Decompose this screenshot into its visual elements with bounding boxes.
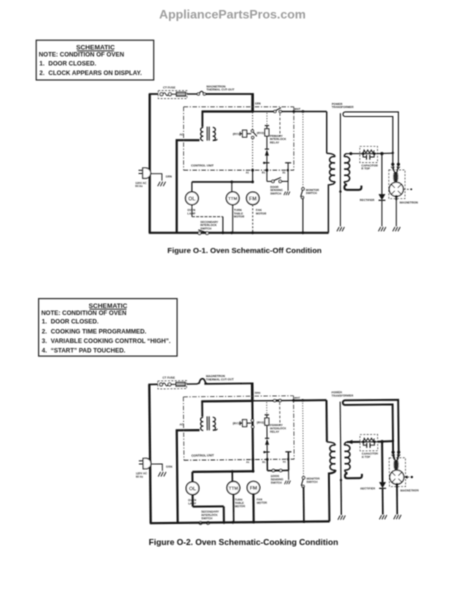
wire: feed drop to LV transformer primary (201, 401, 203, 417)
magnetron thermal cut-out TC1 (198, 379, 208, 384)
power transformer T1 core (339, 402, 342, 480)
svg-text:RELAY: RELAY (270, 141, 279, 145)
svg-text:DOOR CLOSED.: DOOR CLOSED. (48, 60, 96, 67)
node: bottom wire junction dots (222, 231, 225, 234)
wire: top line fuse to thermal cutout (187, 93, 198, 95)
wire: feed line to power transformer (294, 399, 327, 401)
svg-text:S1: S1 (282, 172, 286, 175)
low voltage transformer T2 in control unit (201, 417, 204, 421)
wire: left supply vertical (schematic 1) (149, 94, 151, 233)
node B1 junction (266, 169, 269, 172)
svg-text:SWITCH: SWITCH (270, 192, 281, 196)
note box border (36, 40, 154, 80)
svg-text:SWITCH: SWITCH (200, 226, 211, 230)
current arrow on HV node line (348, 440, 353, 444)
svg-text:GRN: GRN (255, 101, 261, 105)
svg-text:A1: A1 (246, 172, 250, 175)
svg-text:AppliancePartsPros.com: AppliancePartsPros.com (159, 8, 306, 22)
svg-text:Figure O-1. Oven Schematic-Off: Figure O-1. Oven Schematic-Off Condition (167, 246, 321, 255)
svg-text:FM: FM (250, 486, 258, 492)
magnetron antenna lead (404, 476, 411, 478)
wire: LV transformer left lead to left vertical (177, 140, 200, 233)
svg-text:MOTOR: MOTOR (256, 211, 266, 215)
node: TTM junction on loads line (231, 470, 234, 473)
svg-text:4.: 4. (42, 348, 47, 355)
node: FM junction on loads line (252, 470, 255, 473)
wire: column terminal to load line (252, 170, 254, 182)
svg-text:SCHEMATIC: SCHEMATIC (89, 303, 128, 310)
magnetron tube (389, 182, 403, 196)
svg-text:FM: FM (249, 196, 257, 202)
svg-text:CONTROL UNIT: CONTROL UNIT (191, 164, 214, 168)
relay RY2 dotted riser from feed line (266, 402, 268, 415)
relay RY2 top terminal bar (265, 414, 269, 416)
svg-text:B1: B1 (262, 172, 266, 175)
wire: door switch ground stub (287, 181, 289, 191)
wire: HV node line from secondary (347, 441, 360, 443)
node: rectifier junction (380, 152, 383, 155)
wire: GRN ground wire from plug (151, 464, 162, 471)
svg-text:RECTIFIER: RECTIFIER (360, 198, 375, 202)
svg-text:GRN: GRN (166, 465, 172, 469)
wire: FM lower lead (252, 494, 254, 522)
wire: HV node line from secondary (347, 153, 360, 155)
svg-text:B1: B1 (262, 461, 266, 464)
primary interlock switch contacts on feed line (253, 400, 273, 402)
svg-text:TRANSFORMER: TRANSFORMER (332, 105, 354, 109)
node A1 junction on terminal line (251, 169, 254, 172)
magnetron heater filament (394, 172, 397, 182)
node WHT at control unit boundary (292, 110, 295, 113)
svg-text:(RY1): (RY1) (233, 132, 240, 136)
wire: door switch right lead riser (282, 180, 289, 182)
wire: loads supply line (192, 470, 254, 473)
power transformer T1 primary winding (327, 442, 335, 445)
wire: power transformer primary riser (325, 400, 327, 442)
wire: feed column from junction to RY1 contact (251, 402, 253, 420)
svg-text:GRN: GRN (255, 391, 261, 395)
svg-text:(RY2): (RY2) (257, 131, 264, 135)
magnetron V1 dashed outline (389, 458, 405, 487)
ground: door switch ground (284, 192, 286, 196)
wire: feed drop to LV transformer primary (201, 111, 203, 127)
wire: rectifier branch (381, 442, 383, 483)
power transformer T1 HV secondary winding (344, 442, 347, 445)
svg-text:SWITCH: SWITCH (306, 480, 317, 484)
svg-text:MOTOR: MOTOR (257, 501, 267, 505)
power transformer T1 filament winding (345, 473, 362, 478)
turntable motor TTM (231, 471, 233, 481)
wire: column below RY1 to control-unit terminal (252, 139, 254, 171)
svg-text:VARIABLE COOKING CONTROL “HIGH: VARIABLE COOKING CONTROL “HIGH”. (51, 338, 171, 345)
wire: top line from corner to CT fuse (149, 93, 158, 95)
wire: secondary interlock bypass (193, 505, 224, 507)
door sensing switch open blade (274, 177, 281, 180)
rectifier diode D2 (379, 482, 386, 488)
node WHT at control unit boundary (292, 399, 295, 402)
control unit bottom dash-dot terminal line (184, 459, 294, 460)
ground: chassis ground at plug (158, 182, 160, 187)
HV capacitor C1 dashed outline (360, 434, 378, 450)
relay RY2 top terminal bar (265, 125, 269, 127)
wire: capacitor to rectifier node (378, 440, 393, 443)
svg-text:AC: AC (179, 422, 183, 426)
power transformer T1 filament winding (344, 185, 361, 190)
capacitor plates (363, 442, 366, 445)
door sensing switch closed (cooking) (272, 469, 282, 471)
monitor switch SW3 (302, 188, 305, 191)
wire: door switch ground stub (288, 470, 290, 479)
primary interlock switch closed (cooking) (273, 399, 281, 401)
wire: rectifier branch (381, 154, 383, 195)
node: HV winding junction (349, 152, 352, 155)
fuse F1 CT FUSE dashed outline (158, 381, 187, 389)
svg-text:SCHEMATIC: SCHEMATIC (76, 44, 115, 51)
wire: thick feed line inside control unit (202, 110, 254, 112)
wire: top line from corner to CT fuse (148, 383, 157, 385)
node: HV winding ground junction (339, 190, 341, 192)
control unit bottom dash-dot terminal line (184, 169, 294, 171)
oven lamp OL (186, 482, 199, 495)
svg-text:A1: A1 (246, 461, 250, 464)
wire: thick feed line inside control unit (201, 400, 253, 403)
secondary interlock switch SW2 contacts on bottom line (198, 232, 201, 235)
AC plug 120V 60Hz (143, 458, 151, 468)
svg-text:NOTE: CONDITION OF OVEN: NOTE: CONDITION OF OVEN (41, 310, 127, 317)
svg-text:TRANSFORMER: TRANSFORMER (331, 393, 353, 397)
wire: bottom return line (150, 521, 330, 523)
mechanical linkage to RY2 (279, 113, 281, 136)
HV capacitor C1 dashed outline (360, 146, 378, 162)
node: monitor branch junction (301, 399, 304, 402)
wire: feed column from junction to RY1 contact (252, 112, 254, 130)
magnetron heater filament (394, 460, 397, 470)
relay RY1 contact open blade (253, 132, 257, 137)
node: HV winding junction (349, 440, 352, 443)
svg-text:GRN: GRN (166, 174, 172, 178)
HV capacitor C1 node-through line (360, 441, 378, 443)
turntable motor TTM (231, 182, 233, 192)
svg-text:OL: OL (189, 486, 197, 492)
node: magnetron cathode junction (395, 195, 398, 198)
node: filament node junctions (392, 440, 394, 442)
svg-text:R TOP: R TOP (362, 455, 371, 459)
oven lamp OL (186, 192, 199, 205)
primary interlock switch contacts on feed line (254, 111, 274, 113)
power transformer T1 HV secondary winding (344, 154, 347, 157)
node: rectifier junction (380, 440, 383, 443)
wire: oven lamp lower lead (192, 495, 194, 507)
wire: monitor switch to bottom line (303, 487, 305, 522)
mechanical linkage to RY2 (279, 402, 281, 425)
svg-text:NOTE: CONDITION OF OVEN: NOTE: CONDITION OF OVEN (39, 52, 125, 59)
bleeder resistor in capacitor (363, 150, 374, 153)
power transformer T1 primary winding (327, 153, 335, 156)
wire: oven lamp lower lead (191, 205, 193, 217)
svg-text:THERMAL CUT-OUT: THERMAL CUT-OUT (207, 88, 235, 92)
wire: door sensing switch left lead (266, 170, 268, 181)
svg-text:AC: AC (180, 132, 184, 136)
svg-text:SWITCH: SWITCH (271, 481, 282, 485)
magnetron antenna lead (404, 188, 411, 190)
wire: magnetron cathode ground lead (396, 484, 398, 514)
svg-text:CLOCK APPEARS ON DISPLAY.: CLOCK APPEARS ON DISPLAY. (48, 70, 142, 77)
door switch upper terminal bar (285, 162, 291, 164)
diode D1 in RY2 branch (265, 148, 269, 150)
node: magnetron cathode junction (396, 483, 399, 486)
wire: transformer core ground lead (340, 480, 342, 515)
svg-text:R TOP: R TOP (361, 167, 370, 171)
magnetron filament lead connectors (393, 453, 394, 460)
magnetron tube (390, 470, 404, 484)
capacitor plates (363, 154, 366, 157)
svg-text:60 Hz: 60 Hz (135, 184, 143, 188)
wire: secondary interlock bypass (192, 216, 223, 218)
fuse F1 connector and element (160, 93, 163, 96)
svg-text:WHT: WHT (294, 396, 300, 400)
ground: magnetron ground (393, 227, 395, 231)
svg-text:(RY2): (RY2) (257, 420, 265, 424)
wire: GRN ground wire from plug (151, 174, 162, 181)
magnetron thermal cut-out TC1 (197, 93, 199, 95)
svg-text:DOOR CLOSED.: DOOR CLOSED. (51, 319, 99, 326)
svg-text:CT FUSE: CT FUSE (163, 376, 175, 380)
primary interlock switch open blade (276, 108, 281, 111)
svg-text:CONTROL UNIT: CONTROL UNIT (191, 453, 214, 457)
ground: transformer ground (338, 515, 340, 519)
wire: filament hairpin loop to magnetron (343, 400, 399, 453)
low voltage transformer T2 in control unit (201, 127, 204, 131)
secondary interlock switch closed (cooking) (199, 522, 202, 525)
svg-text:THERMAL CUT-OUT: THERMAL CUT-OUT (206, 377, 234, 381)
svg-text:1.: 1. (39, 60, 44, 67)
node: bottom wire junction dots (222, 521, 225, 524)
wire: right feed drop at corner (251, 383, 254, 402)
svg-text:1.: 1. (42, 319, 47, 326)
ground: rectifier ground (379, 515, 381, 519)
node: door switch junction on terminal line (287, 169, 289, 171)
terminal bar with junction in RY2 branch (263, 162, 269, 164)
node: FM junction on loads line (251, 181, 254, 184)
ground: chassis ground at plug (158, 472, 160, 477)
svg-text:LAMP: LAMP (187, 211, 195, 215)
svg-text:WHT: WHT (294, 107, 300, 111)
door sensing switch SW1 contacts (272, 180, 275, 183)
wire: bottom return line (149, 232, 329, 234)
wire: monitor switch dotted branch (302, 112, 304, 188)
wire: TTM lower lead (232, 494, 234, 522)
ground: door switch ground (284, 481, 286, 485)
node: TTM junction on loads line (230, 181, 233, 184)
svg-text:MOTOR: MOTOR (234, 215, 244, 219)
bleeder resistor in capacitor (363, 438, 374, 441)
note box border (39, 299, 178, 357)
door switch upper terminal bar (285, 451, 291, 453)
terminal bar with junction in RY2 branch (264, 451, 270, 453)
wire: door sensing switch left lead (266, 459, 268, 470)
node: filament node junctions (392, 152, 394, 154)
svg-text:MAGNETRON: MAGNETRON (400, 488, 418, 492)
HV capacitor C1 node-through line (360, 153, 378, 155)
fuse F1 CT FUSE dashed outline (158, 91, 187, 99)
control unit dash-dot enclosure (184, 106, 294, 108)
relay RY1 contact closed (cooking) (251, 419, 253, 428)
ground: transformer ground (337, 227, 339, 231)
svg-text:TTM: TTM (229, 486, 239, 491)
wire: FM lower lead (252, 205, 254, 233)
svg-text:Figure O-2. Oven Schematic-Coo: Figure O-2. Oven Schematic-Cooking Condi… (149, 537, 338, 547)
svg-text:3.: 3. (42, 338, 47, 345)
wire: monitor switch dotted branch (302, 400, 305, 476)
svg-text:60 Hz: 60 Hz (136, 475, 144, 479)
wire: top line fuse to thermal cutout (187, 383, 198, 385)
relay RY2 dotted riser from feed line (266, 113, 268, 126)
svg-text:S1: S1 (283, 461, 287, 464)
wire: capacitor to rectifier node (378, 152, 393, 154)
magnetron filament lead connectors (393, 165, 394, 172)
node: monitor branch junction (302, 110, 305, 113)
ground: rectifier ground (378, 227, 380, 231)
svg-text:RELAY: RELAY (270, 430, 279, 434)
relay RY1 contact on feed column (251, 130, 253, 132)
wire: top line cutout to right corner (205, 93, 254, 95)
wire: transformer core ground lead (339, 192, 341, 227)
wire: magnetron cathode ground lead (395, 196, 397, 226)
monitor switch SW3 (302, 476, 305, 479)
svg-text:2.: 2. (39, 70, 44, 77)
wire: top line cutout to right corner (204, 382, 253, 384)
svg-text:COOKING TIME PROGRAMMED.: COOKING TIME PROGRAMMED. (51, 328, 147, 335)
svg-text:2.: 2. (42, 328, 47, 335)
node: door switch junction on terminal line (287, 458, 289, 460)
node B1 junction (266, 458, 269, 461)
rectifier diode D2 (379, 194, 386, 200)
fan motor FM (247, 192, 260, 205)
control unit dash-dot enclosure (183, 396, 293, 397)
wire: door switch right lead riser (282, 469, 289, 471)
fuse F1 connector and element (160, 383, 163, 386)
AC plug 120V 60Hz (143, 168, 151, 178)
svg-text:MAGNETRON: MAGNETRON (400, 201, 418, 205)
wire: LV transformer left lead to left vertical (177, 430, 201, 523)
wire: left supply vertical (schematic 2) (149, 384, 150, 523)
svg-text:OL: OL (188, 196, 196, 202)
wire: power transformer primary riser (326, 112, 328, 154)
secondary interlock switch open blade (198, 230, 206, 233)
wire: loads supply line (192, 181, 254, 183)
svg-text:TTM: TTM (228, 196, 237, 201)
wire: column below RY1 to control-unit terminal (252, 428, 254, 460)
svg-text:SWITCH: SWITCH (306, 191, 317, 195)
svg-text:CT FUSE: CT FUSE (163, 85, 175, 89)
wire: monitor switch to bottom line (302, 198, 304, 233)
node: HV winding ground junction (340, 479, 342, 481)
svg-text:SWITCH: SWITCH (201, 516, 212, 520)
svg-text:“START” PAD TOUCHED.: “START” PAD TOUCHED. (51, 348, 126, 355)
node A1 junction on terminal line (252, 458, 255, 461)
wire: feed line to power transformer (294, 111, 327, 113)
power transformer T1 core (339, 113, 341, 191)
ground: magnetron ground (394, 515, 396, 519)
wire: right feed drop at corner (251, 93, 254, 112)
diode D1 in RY2 branch (265, 437, 269, 439)
wire: filament hairpin loop to magnetron (343, 112, 398, 164)
fan motor FM (247, 481, 260, 494)
svg-text:MOTOR: MOTOR (235, 504, 245, 508)
svg-text:(RY1): (RY1) (233, 421, 241, 425)
wire: TTM lower lead (232, 205, 234, 233)
svg-text:RECTIFIER: RECTIFIER (360, 486, 375, 490)
magnetron V1 dashed outline (389, 170, 405, 199)
wire: column terminal to load line (252, 460, 254, 472)
